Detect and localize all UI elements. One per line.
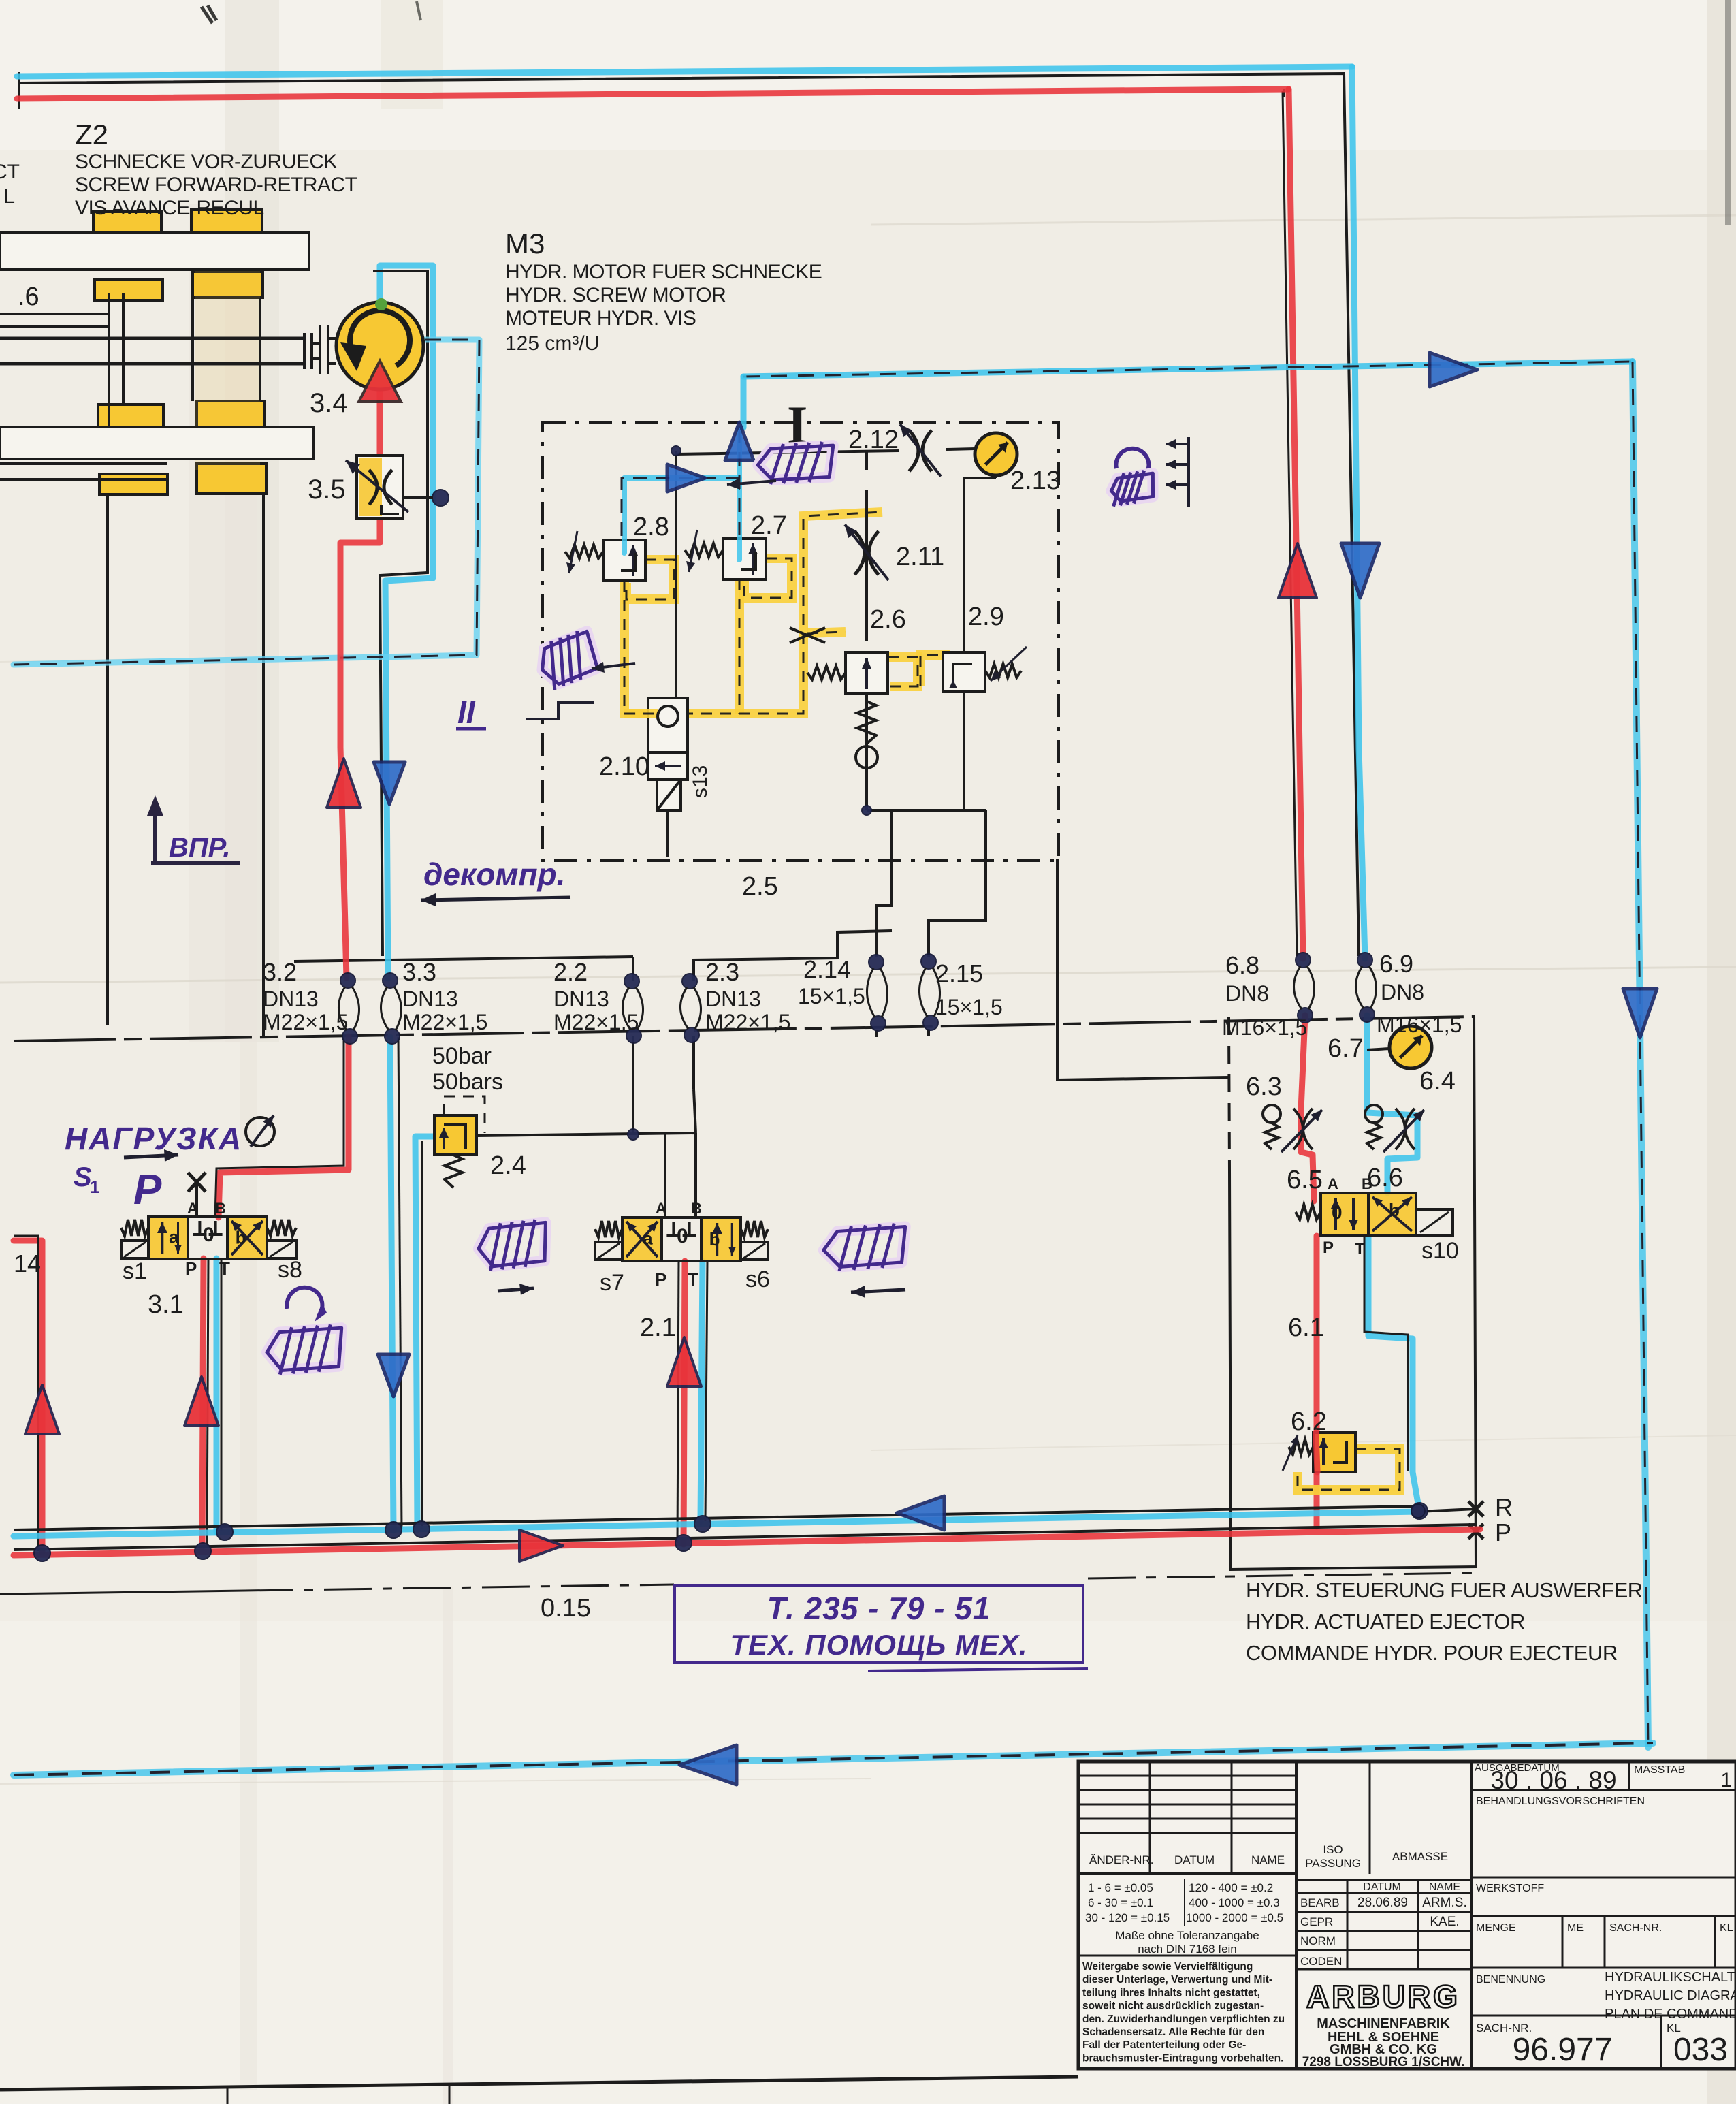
svg-text:soweit nicht ausdrücklich zuge: soweit nicht ausdrücklich zugestan- [1082, 2001, 1264, 2012]
svg-text:den. Zuwiderhandlungen verpfli: den. Zuwiderhandlungen verpflichten zu [1082, 2013, 1285, 2025]
svg-text:NAME: NAME [1429, 1881, 1460, 1893]
svg-text:P: P [1495, 1518, 1511, 1546]
svg-text:b: b [709, 1229, 720, 1249]
svg-text:a: a [643, 1228, 653, 1249]
svg-text:HYDR. ACTUATED EJECTOR: HYDR. ACTUATED EJECTOR [1246, 1610, 1525, 1633]
svg-text:NORM: NORM [1300, 1934, 1336, 1947]
svg-text:M22×1,5: M22×1,5 [263, 1010, 348, 1034]
svg-text:6.6: 6.6 [1367, 1164, 1403, 1192]
svg-text:DN8: DN8 [1225, 981, 1269, 1006]
svg-text:BENENNUNG: BENENNUNG [1476, 1974, 1545, 1986]
svg-text:3.4: 3.4 [310, 388, 348, 418]
svg-text:6.2: 6.2 [1291, 1407, 1327, 1436]
svg-text:M3: M3 [505, 227, 545, 259]
svg-text:ARM.S.: ARM.S. [1422, 1896, 1466, 1910]
svg-text:.6: .6 [18, 283, 39, 311]
svg-text:0.15: 0.15 [541, 1594, 591, 1623]
svg-text:S: S [74, 1162, 92, 1192]
svg-text:A: A [656, 1200, 666, 1217]
svg-text:125 cm³/U: 125 cm³/U [505, 332, 599, 355]
svg-text:28.06.89: 28.06.89 [1357, 1896, 1408, 1910]
svg-text:HYDR. MOTOR FUER SCHNECKE: HYDR. MOTOR FUER SCHNECKE [505, 261, 822, 283]
svg-text:MASCHINENFABRIK: MASCHINENFABRIK [1317, 2016, 1450, 2031]
svg-text:B: B [215, 1200, 226, 1217]
svg-text:2.2: 2.2 [553, 958, 588, 986]
svg-text:50bars: 50bars [432, 1069, 503, 1095]
svg-text:VIS AVANCE-RECUL: VIS AVANCE-RECUL [75, 197, 264, 219]
svg-text:96.977: 96.977 [1513, 2032, 1613, 2068]
svg-text:15×1,5: 15×1,5 [798, 984, 865, 1008]
svg-text:nach DIN 7168 fein: nach DIN 7168 fein [1138, 1943, 1237, 1956]
svg-text:L: L [3, 185, 15, 208]
svg-text:P: P [133, 1166, 162, 1213]
svg-text:WERKSTOFF: WERKSTOFF [1476, 1883, 1544, 1894]
svg-text:M22×1,5: M22×1,5 [553, 1010, 639, 1034]
svg-text:0: 0 [1332, 1202, 1343, 1223]
svg-text:SCREW FORWARD-RETRACT: SCREW FORWARD-RETRACT [75, 174, 357, 196]
svg-text:HYDRAULIKSCHALTPLAN: HYDRAULIKSCHALTPLAN [1605, 1970, 1736, 1985]
svg-text:2.8: 2.8 [633, 513, 669, 541]
svg-text:NAME: NAME [1251, 1853, 1285, 1866]
svg-text:s6: s6 [745, 1266, 770, 1292]
svg-text:A: A [187, 1200, 198, 1217]
svg-text:P: P [1323, 1239, 1334, 1257]
svg-text:ME: ME [1567, 1922, 1584, 1934]
svg-text:0: 0 [203, 1224, 214, 1246]
svg-text:II: II [457, 695, 476, 730]
svg-text:HYDR. SCREW MOTOR: HYDR. SCREW MOTOR [505, 284, 726, 306]
svg-text:KL: KL [1720, 1922, 1733, 1934]
svg-text:T: T [1355, 1240, 1365, 1258]
svg-text:3.2: 3.2 [263, 958, 297, 986]
svg-text:30 . 06 . 89: 30 . 06 . 89 [1490, 1766, 1616, 1794]
svg-text:DN13: DN13 [705, 987, 761, 1011]
svg-text:2.14: 2.14 [803, 955, 851, 983]
svg-text:b: b [236, 1228, 246, 1248]
svg-text:2.11: 2.11 [896, 543, 944, 571]
svg-text:2.13: 2.13 [1010, 466, 1061, 495]
svg-text:HYDR. STEUERUNG FUER AUSWERFER: HYDR. STEUERUNG FUER AUSWERFER [1246, 1578, 1643, 1602]
svg-text:HYDRAULIC DIAGRAM: HYDRAULIC DIAGRAM [1605, 1988, 1736, 2003]
svg-text:T: T [219, 1258, 230, 1279]
svg-text:ТЕХ. ПОМОЩЬ МЕХ.: ТЕХ. ПОМОЩЬ МЕХ. [730, 1629, 1027, 1661]
svg-text:1: 1 [1720, 1769, 1732, 1791]
svg-text:Maße ohne Toleranzangabe: Maße ohne Toleranzangabe [1115, 1929, 1259, 1942]
svg-text:brauchsmuster-Eintragung vorbe: brauchsmuster-Eintragung vorbehalten. [1082, 2052, 1283, 2064]
svg-text:PASSUNG: PASSUNG [1305, 1857, 1361, 1870]
svg-text:1 - 6 = ±0.05: 1 - 6 = ±0.05 [1088, 1881, 1153, 1894]
svg-text:6.1: 6.1 [1288, 1313, 1324, 1342]
svg-text:DN13: DN13 [553, 987, 609, 1011]
svg-text:0: 0 [677, 1225, 688, 1247]
svg-text:декомпр.: декомпр. [423, 857, 565, 892]
svg-text:2.10: 2.10 [599, 752, 649, 781]
svg-text:2.15: 2.15 [935, 959, 983, 987]
svg-text:6.4: 6.4 [1419, 1067, 1456, 1096]
svg-text:3.1: 3.1 [148, 1290, 184, 1319]
svg-text:2.5: 2.5 [742, 872, 778, 901]
svg-text:ARBURG: ARBURG [1306, 1979, 1460, 2014]
svg-text:CODEN: CODEN [1300, 1955, 1342, 1968]
svg-text:M22×1,5: M22×1,5 [705, 1010, 790, 1034]
svg-text:6.3: 6.3 [1246, 1072, 1282, 1101]
svg-text:Schadensersatz. Alle Rechte fü: Schadensersatz. Alle Rechte für den [1082, 2026, 1264, 2038]
svg-text:2.4: 2.4 [490, 1151, 526, 1180]
svg-text:P: P [655, 1269, 666, 1290]
svg-text:Fall der Patenterteilung oder: Fall der Patenterteilung oder Ge- [1082, 2039, 1246, 2051]
svg-text:15×1,5: 15×1,5 [935, 995, 1003, 1019]
svg-text:30 - 120 = ±0.15: 30 - 120 = ±0.15 [1085, 1911, 1170, 1924]
svg-text:1: 1 [90, 1177, 99, 1197]
svg-text:DATUM: DATUM [1363, 1881, 1401, 1893]
svg-text:1000 - 2000 = ±0.5: 1000 - 2000 = ±0.5 [1186, 1911, 1283, 1924]
svg-text:7298 LOSSBURG 1/SCHW.: 7298 LOSSBURG 1/SCHW. [1302, 2055, 1465, 2069]
svg-text:a: a [169, 1226, 179, 1247]
svg-text:2.6: 2.6 [870, 605, 906, 634]
svg-text:s10: s10 [1421, 1238, 1459, 1264]
svg-text:6.7: 6.7 [1328, 1034, 1364, 1063]
svg-text:400 - 1000 = ±0.3: 400 - 1000 = ±0.3 [1189, 1896, 1280, 1909]
svg-text:T: T [688, 1269, 698, 1290]
svg-text:BEHANDLUNGSVORSCHRIFTEN: BEHANDLUNGSVORSCHRIFTEN [1476, 1796, 1645, 1807]
svg-text:ABMASSE: ABMASSE [1392, 1850, 1448, 1863]
svg-text:M16×1,5: M16×1,5 [1222, 1015, 1307, 1040]
svg-text:50bar: 50bar [432, 1043, 492, 1069]
svg-text:PLAN DE COMMANDE HYDRAULI: PLAN DE COMMANDE HYDRAULI [1605, 2007, 1736, 2022]
svg-text:COMMANDE HYDR. POUR EJECTEUR: COMMANDE HYDR. POUR EJECTEUR [1246, 1641, 1618, 1665]
svg-text:P: P [185, 1258, 197, 1279]
svg-text:6.8: 6.8 [1225, 951, 1259, 979]
svg-text:SACH-NR.: SACH-NR. [1609, 1922, 1662, 1934]
svg-text:120 - 400 = ±0.2: 120 - 400 = ±0.2 [1189, 1881, 1273, 1894]
svg-text:Weitergabe sowie Vervielfältig: Weitergabe sowie Vervielfältigung [1082, 1961, 1253, 1973]
svg-text:M16×1,5: M16×1,5 [1377, 1013, 1462, 1037]
svg-text:KAE.: KAE. [1430, 1915, 1459, 1929]
svg-text:s1: s1 [123, 1258, 147, 1284]
svg-text:M22×1,5: M22×1,5 [402, 1010, 487, 1034]
svg-text:s8: s8 [278, 1257, 302, 1283]
svg-text:2.7: 2.7 [751, 511, 787, 540]
svg-text:НАГРУЗКА: НАГРУЗКА [65, 1121, 242, 1156]
svg-text:ÄNDER-NR.: ÄNDER-NR. [1089, 1853, 1153, 1866]
svg-text:Т. 235 - 79 - 51: Т. 235 - 79 - 51 [767, 1591, 991, 1626]
svg-text:DN13: DN13 [402, 987, 458, 1011]
svg-text:teilung ihres Inhalts nicht ge: teilung ihres Inhalts nicht gestattet, [1082, 1987, 1260, 1998]
svg-text:2.3: 2.3 [705, 958, 739, 986]
svg-text:BEARB: BEARB [1300, 1896, 1340, 1909]
svg-text:DN8: DN8 [1381, 980, 1424, 1004]
svg-text:MASSTAB: MASSTAB [1634, 1764, 1685, 1776]
svg-text:b: b [1389, 1200, 1400, 1220]
svg-text:033: 033 [1673, 2032, 1728, 2068]
svg-text:CT: CT [0, 161, 20, 183]
svg-text:2.9: 2.9 [968, 603, 1004, 631]
svg-text:DATUM: DATUM [1174, 1853, 1215, 1866]
svg-text:3.3: 3.3 [402, 958, 436, 986]
svg-text:MENGE: MENGE [1476, 1922, 1516, 1934]
svg-text:dieser Unterlage, Verwertung u: dieser Unterlage, Verwertung und Mit- [1082, 1974, 1272, 1986]
svg-text:DN13: DN13 [263, 987, 319, 1011]
svg-text:SCHNECKE VOR-ZURUECK: SCHNECKE VOR-ZURUECK [75, 150, 338, 173]
svg-text:MOTEUR HYDR. VIS: MOTEUR HYDR. VIS [505, 307, 696, 330]
svg-text:GEPR: GEPR [1300, 1915, 1333, 1928]
svg-text:A: A [1328, 1175, 1338, 1192]
svg-text:R: R [1495, 1493, 1513, 1521]
svg-text:3.5: 3.5 [308, 475, 346, 505]
svg-text:ISO: ISO [1323, 1843, 1343, 1856]
svg-text:B: B [691, 1200, 702, 1217]
svg-text:s13: s13 [689, 765, 711, 798]
svg-text:2.12: 2.12 [848, 426, 899, 454]
svg-text:Z2: Z2 [75, 118, 108, 150]
svg-text:6.5: 6.5 [1287, 1166, 1323, 1194]
svg-text:2.1: 2.1 [640, 1313, 676, 1342]
svg-text:6 - 30 = ±0.1: 6 - 30 = ±0.1 [1088, 1896, 1153, 1909]
svg-text:14: 14 [14, 1249, 41, 1277]
svg-text:ВПР.: ВПР. [169, 833, 230, 863]
svg-text:s7: s7 [600, 1270, 624, 1296]
svg-text:6.9: 6.9 [1379, 950, 1413, 978]
